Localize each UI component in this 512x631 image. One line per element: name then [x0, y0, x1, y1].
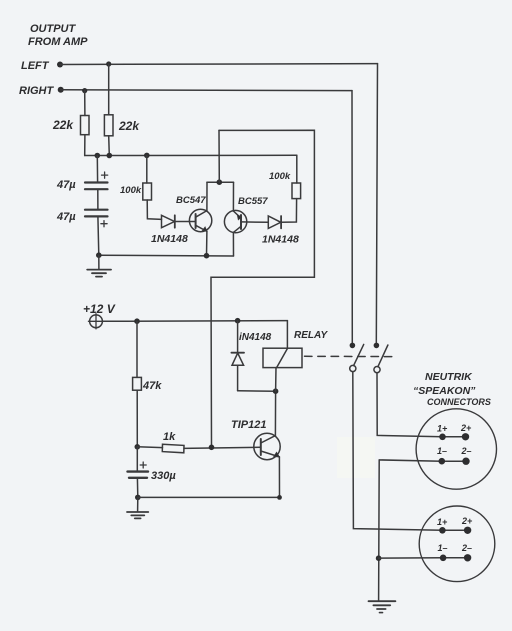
node junction RIGHT/22k	[82, 88, 87, 93]
node corner emitter/rail	[277, 495, 282, 500]
wire BC547 emitter down	[206, 231, 208, 255]
node junction 100k left branch	[144, 153, 150, 159]
wire 100k left bottom lead to diode	[147, 200, 161, 219]
node junction cap bottom / ground rail	[135, 495, 141, 501]
wire emitter ground rail	[138, 496, 280, 498]
terminal RIGHT input	[58, 87, 64, 93]
wire junction up to output link	[218, 130, 220, 182]
wire cap branch lower lead	[97, 216, 100, 255]
node junction emitter bottom rail	[204, 253, 210, 259]
node junction flyback diode	[235, 318, 241, 324]
wire BC547 collector up	[206, 182, 208, 210]
speakon lower pin 1-	[440, 555, 447, 562]
svg-text:1+: 1+	[437, 424, 448, 434]
wire upper speakon 1- to 2-	[442, 460, 466, 462]
diode 1N4148 right	[268, 216, 281, 228]
speakon upper pin 1+	[439, 434, 446, 441]
wire RIGHT vertical down to switch	[351, 91, 353, 345]
svg-text:47µ: 47µ	[56, 179, 76, 191]
capacitor 47u bottom	[85, 210, 108, 227]
ground speaker return	[369, 601, 396, 612]
resistor 22k right	[104, 115, 113, 136]
transistor Q1 BC547	[189, 209, 211, 231]
node junction caps	[95, 153, 101, 159]
svg-text:1N4148: 1N4148	[262, 234, 299, 246]
wire left switch to lower speakon 1+	[353, 372, 443, 531]
wire relay pin down	[275, 368, 277, 392]
speakon upper pin 2-	[462, 458, 469, 465]
capacitor 330u	[128, 447, 149, 498]
speakon lower pin 2-	[464, 554, 471, 561]
wire summing node horizontal	[85, 154, 297, 156]
wire right 22k top lead	[108, 64, 110, 115]
wire left 22k top lead	[84, 91, 86, 116]
svg-text:iN4148: iN4148	[239, 332, 272, 343]
wire LEFT horizontal	[60, 63, 378, 66]
resistor 1k	[162, 444, 184, 453]
wire top link between transistors	[207, 181, 234, 183]
svg-text:RIGHT: RIGHT	[19, 85, 55, 97]
wire lower speakon 1+ to 2+	[442, 529, 467, 531]
wire 100k left top lead	[146, 155, 148, 183]
wire left 22k bottom lead	[84, 135, 86, 156]
svg-text:100k: 100k	[269, 171, 291, 182]
labels lower speakon pins	[437, 516, 473, 553]
wire BC557 collector down	[232, 232, 234, 256]
svg-text:1–: 1–	[437, 446, 447, 456]
transistor Q2 BC557	[224, 210, 246, 232]
wire TIP121 emitter down	[278, 457, 280, 498]
node junction right 22k bottom	[107, 153, 113, 159]
svg-text:22k: 22k	[118, 119, 140, 133]
resistor 47k	[133, 377, 142, 390]
speakon upper pin 1-	[439, 458, 446, 465]
svg-text:2+: 2+	[460, 423, 472, 433]
svg-text:BC557: BC557	[238, 196, 268, 207]
svg-text:22k: 22k	[52, 118, 74, 132]
svg-text:TIP121: TIP121	[231, 419, 266, 431]
wire BC557 emitter up	[232, 182, 234, 211]
node junction relay/collector	[273, 388, 279, 394]
node junction 1k/330u	[135, 444, 141, 450]
svg-text:1–: 1–	[438, 543, 448, 553]
wire LEFT vertical down to switch	[376, 64, 377, 345]
relay coil box	[263, 348, 302, 367]
wire lower speakon 1- feed	[379, 557, 468, 559]
node junction bottom rail / ground	[96, 252, 102, 258]
wire diode to 100k right	[281, 199, 297, 223]
wire to 1k	[137, 446, 162, 449]
wire RIGHT horizontal	[61, 89, 352, 92]
resistor 22k left	[81, 116, 90, 135]
wire right switch to upper speakon 1+	[377, 373, 443, 437]
svg-text:2–: 2–	[461, 543, 472, 553]
svg-text:NEUTRIK: NEUTRIK	[425, 371, 473, 383]
svg-text:OUTPUT: OUTPUT	[30, 23, 77, 35]
svg-text:1N4148: 1N4148	[151, 233, 188, 245]
speakon upper pin 2+	[462, 433, 469, 440]
terminal LEFT input	[57, 62, 63, 68]
svg-text:“SPEAKON”: “SPEAKON”	[413, 385, 476, 397]
svg-text:BC547: BC547	[176, 195, 206, 206]
labels upper speakon pins	[437, 423, 472, 456]
svg-text:2–: 2–	[461, 446, 472, 456]
wire diode to BC547 base	[175, 221, 195, 223]
wire 47k top lead	[136, 321, 138, 377]
diode 1N4148 flyback	[231, 321, 244, 391]
node junction transistor tops	[217, 179, 223, 185]
ground under 330u	[127, 497, 148, 518]
wire BC557 base to diode	[241, 221, 268, 223]
power +12V terminal	[88, 314, 103, 329]
node junction LEFT/22k	[106, 61, 111, 66]
svg-text:CONNECTORS: CONNECTORS	[427, 397, 491, 407]
wire relay dashed actuator link	[305, 355, 394, 357]
svg-text:330µ: 330µ	[151, 470, 176, 482]
resistor 100k right	[292, 183, 301, 199]
svg-text:1+: 1+	[437, 517, 448, 527]
svg-text:+12 V: +12 V	[83, 302, 116, 316]
capacitor 47u top	[85, 172, 108, 189]
label OUTPUT FROM AMP	[28, 23, 88, 48]
wire +12V rail	[102, 320, 287, 323]
wire cap branch upper lead	[96, 156, 98, 183]
switch contact left (right channel)	[350, 343, 364, 372]
wire between caps	[97, 189, 99, 210]
svg-text:47µ: 47µ	[56, 211, 76, 223]
svg-text:LEFT: LEFT	[21, 60, 50, 72]
wire right 22k bottom lead	[108, 136, 111, 156]
speakon lower pin 1+	[439, 527, 446, 534]
wire TIP121 collector up	[274, 391, 276, 435]
svg-text:100k: 100k	[120, 185, 142, 196]
wire relay coil feed down	[286, 321, 288, 349]
correction fluid patch	[337, 437, 375, 478]
wire upper speakon 1+ to 2+	[443, 436, 466, 438]
diode 1N4148 left	[162, 215, 175, 227]
svg-text:FROM AMP: FROM AMP	[28, 36, 88, 48]
svg-text:RELAY: RELAY	[294, 330, 328, 341]
wire 47k bottom lead	[136, 390, 138, 447]
speakon lower pin 2+	[464, 527, 471, 534]
wire speaker ground bus	[379, 460, 442, 601]
transistor Q3 TIP121	[254, 433, 280, 459]
wire 1k to TIP121 base	[184, 447, 260, 448]
speakon connector lower circle	[419, 506, 495, 582]
wire diode bottom to relay pin	[238, 390, 276, 392]
switch contact right (left channel)	[374, 343, 388, 373]
svg-text:47k: 47k	[142, 380, 162, 392]
node junction ground bus / lower 1-	[376, 555, 382, 561]
svg-text:2+: 2+	[461, 516, 473, 526]
wire detector output link	[211, 130, 314, 447]
wire 100k right top lead	[296, 155, 298, 183]
wire detector bottom rail	[99, 254, 234, 257]
resistor 100k left	[143, 183, 152, 200]
node junction 47k	[134, 318, 140, 324]
label NEUTRIK SPEAKON CONNECTORS	[413, 371, 491, 407]
node junction detector line / base	[209, 445, 215, 451]
svg-text:1k: 1k	[163, 431, 176, 443]
speakon connector upper circle	[416, 409, 496, 489]
ground detector	[87, 255, 111, 276]
